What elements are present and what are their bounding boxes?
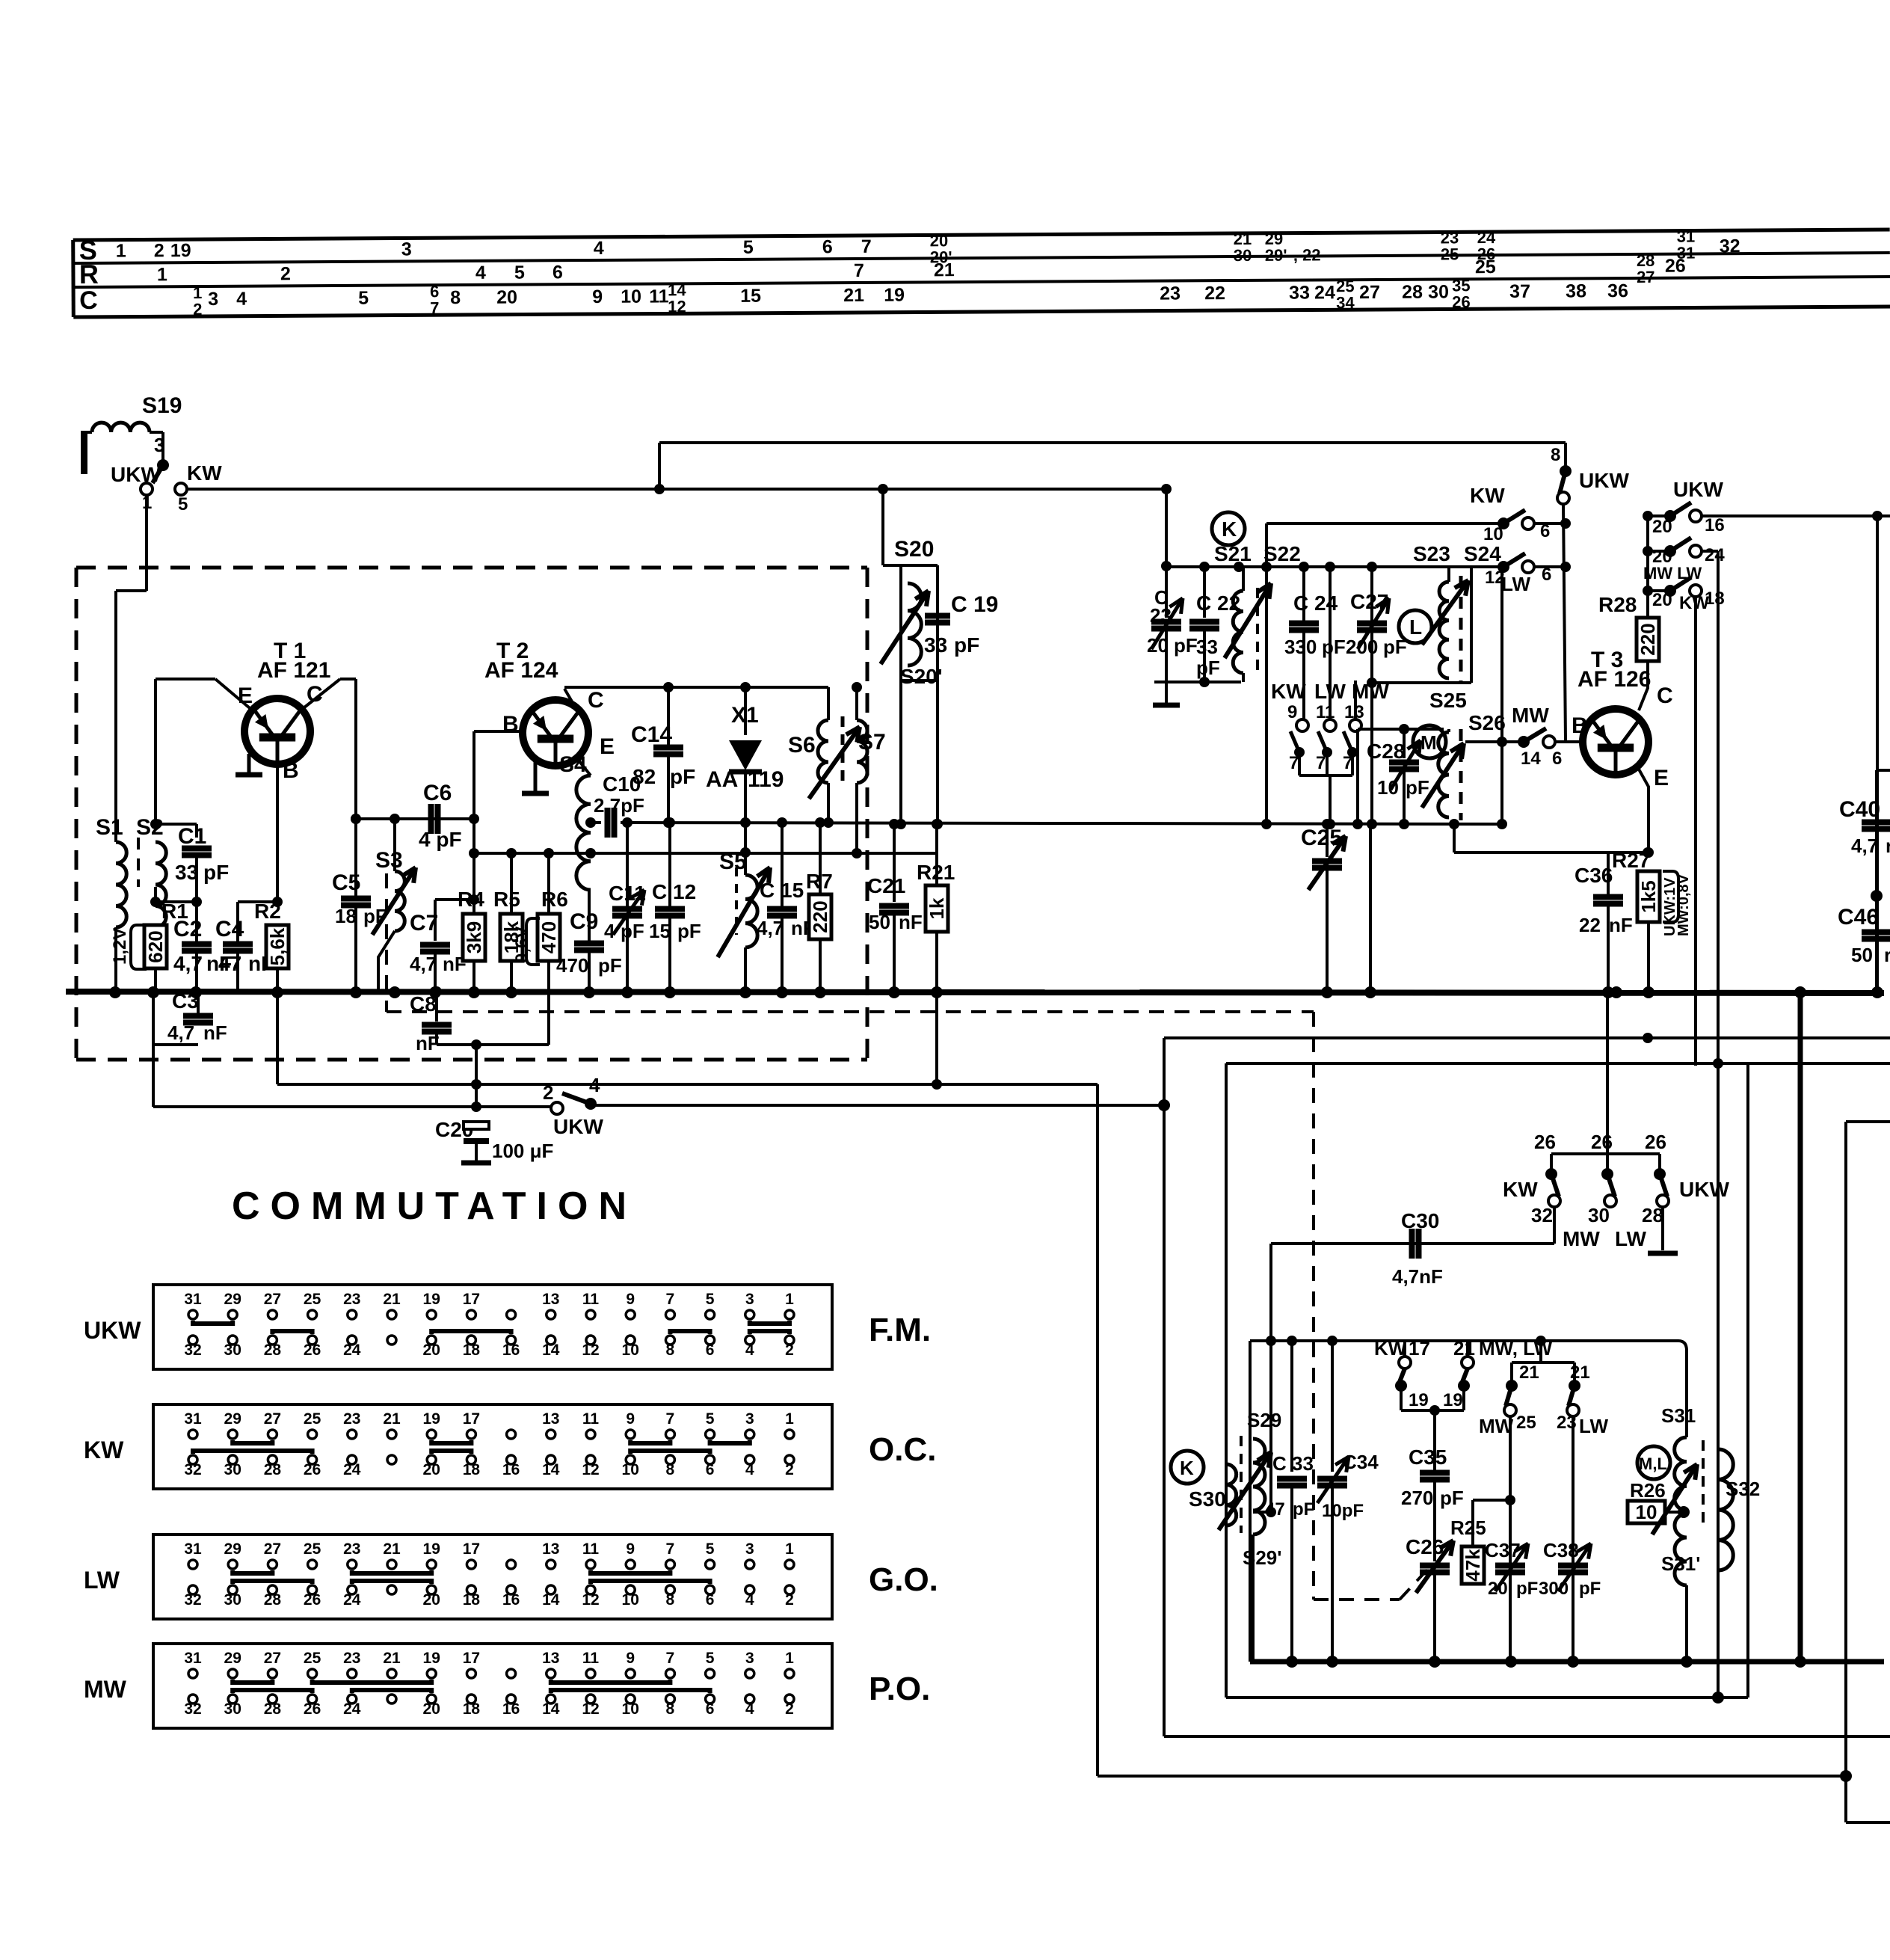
svg-text:270: 270 [1401, 1487, 1433, 1509]
svg-text:B: B [1572, 713, 1588, 738]
svg-text:S30: S30 [1189, 1487, 1226, 1511]
svg-text:23: 23 [343, 1410, 360, 1428]
svg-text:23: 23 [1160, 283, 1181, 304]
svg-text:11: 11 [582, 1540, 600, 1558]
svg-text:5: 5 [706, 1540, 715, 1558]
svg-text:19: 19 [170, 240, 191, 261]
svg-text:2: 2 [543, 1081, 553, 1104]
svg-text:21: 21 [383, 1650, 401, 1667]
svg-text:10: 10 [621, 286, 641, 307]
svg-text:3: 3 [401, 239, 412, 259]
svg-text:28: 28 [264, 1342, 282, 1359]
svg-text:19: 19 [423, 1540, 440, 1558]
svg-text:16: 16 [502, 1701, 520, 1718]
svg-text:C 12: C 12 [652, 880, 696, 903]
svg-text:3: 3 [745, 1650, 754, 1667]
svg-text:C35: C35 [1409, 1446, 1447, 1469]
svg-text:R26: R26 [1630, 1479, 1666, 1502]
svg-text:C46: C46 [1838, 905, 1879, 930]
svg-text:32: 32 [184, 1342, 201, 1359]
svg-text:B: B [283, 758, 299, 783]
svg-text:7: 7 [666, 1410, 675, 1428]
svg-text:33: 33 [1196, 636, 1218, 658]
svg-text:22: 22 [1579, 914, 1601, 936]
svg-text:18: 18 [335, 905, 357, 927]
svg-text:12: 12 [668, 297, 686, 316]
svg-text:C: C [1657, 683, 1673, 708]
svg-text:1: 1 [785, 1540, 794, 1558]
svg-text:S23: S23 [1413, 542, 1450, 565]
svg-text:33: 33 [1289, 282, 1310, 303]
svg-text:26: 26 [1534, 1131, 1556, 1153]
svg-text:4: 4 [475, 262, 486, 283]
svg-text:17: 17 [1409, 1337, 1430, 1360]
svg-text:1: 1 [785, 1291, 794, 1308]
svg-text:MW: MW [1512, 704, 1549, 727]
svg-text:28: 28 [1402, 282, 1423, 303]
svg-text:2: 2 [280, 263, 291, 284]
svg-text:KW: KW [84, 1437, 124, 1463]
svg-text:S29: S29 [1247, 1409, 1281, 1431]
svg-text:28: 28 [264, 1461, 282, 1478]
svg-text:C26: C26 [1406, 1535, 1444, 1558]
svg-text:pF: pF [621, 920, 644, 942]
svg-text:19: 19 [1409, 1390, 1429, 1410]
svg-text:21: 21 [383, 1410, 401, 1428]
svg-text:36: 36 [1607, 280, 1628, 301]
svg-text:2: 2 [193, 300, 202, 319]
svg-text:16: 16 [502, 1342, 520, 1359]
svg-text:C14: C14 [631, 722, 672, 747]
svg-text:11: 11 [649, 286, 669, 307]
svg-text:nF: nF [416, 1032, 440, 1054]
svg-text:47k: 47k [1462, 1549, 1484, 1582]
svg-text:14: 14 [542, 1461, 560, 1478]
svg-text:AF 126: AF 126 [1577, 667, 1651, 692]
svg-text:C9: C9 [570, 909, 598, 934]
svg-text:10: 10 [622, 1591, 639, 1609]
svg-text:11: 11 [582, 1410, 600, 1428]
svg-text:6: 6 [706, 1342, 715, 1359]
svg-text:6: 6 [706, 1591, 715, 1609]
svg-text:13: 13 [542, 1291, 559, 1308]
svg-text:r: r [1886, 835, 1890, 857]
svg-text:R28: R28 [1598, 593, 1637, 616]
svg-text:L: L [1409, 615, 1422, 639]
svg-text:6: 6 [822, 236, 833, 257]
svg-text:26: 26 [304, 1342, 321, 1359]
svg-text:2: 2 [785, 1701, 794, 1718]
svg-text:50: 50 [869, 911, 890, 933]
svg-text:4: 4 [745, 1342, 754, 1359]
svg-text:24: 24 [343, 1461, 361, 1478]
svg-text:34: 34 [1336, 293, 1355, 312]
svg-text:S31: S31 [1661, 1404, 1696, 1427]
svg-text:31: 31 [184, 1540, 202, 1558]
svg-text:nF: nF [899, 911, 923, 933]
svg-text:19: 19 [423, 1650, 440, 1667]
svg-text:17: 17 [463, 1650, 480, 1667]
svg-text:23: 23 [343, 1650, 360, 1667]
svg-text:24: 24 [1314, 282, 1335, 303]
svg-text:S25: S25 [1429, 689, 1467, 712]
svg-text:200: 200 [1346, 636, 1378, 658]
svg-text:3: 3 [208, 289, 218, 310]
svg-text:P.O.: P.O. [869, 1671, 930, 1707]
svg-text:32: 32 [1531, 1204, 1553, 1226]
svg-text:28: 28 [1642, 1204, 1663, 1226]
svg-text:7: 7 [1316, 753, 1326, 773]
svg-text:19: 19 [423, 1291, 440, 1308]
svg-text:9: 9 [626, 1540, 635, 1558]
svg-text:R25: R25 [1450, 1517, 1486, 1539]
svg-text:4,7: 4,7 [757, 917, 784, 939]
svg-text:15: 15 [740, 286, 761, 307]
svg-text:28: 28 [264, 1701, 282, 1718]
svg-text:COMMUTATION: COMMUTATION [232, 1185, 637, 1228]
svg-text:18: 18 [463, 1701, 481, 1718]
svg-text:26: 26 [1645, 1131, 1666, 1153]
svg-text:19: 19 [423, 1410, 440, 1428]
svg-text:4: 4 [745, 1591, 754, 1609]
svg-text:UKW: UKW [1673, 478, 1723, 501]
svg-text:AA: AA [706, 767, 738, 792]
svg-text:30: 30 [224, 1591, 241, 1609]
svg-text:47: 47 [1265, 1499, 1285, 1520]
svg-text:1: 1 [785, 1410, 794, 1428]
svg-text:24: 24 [343, 1591, 361, 1609]
svg-text:21: 21 [934, 259, 955, 280]
svg-text:6: 6 [552, 262, 563, 283]
svg-text:8: 8 [666, 1701, 675, 1718]
svg-text:pF: pF [1406, 776, 1429, 799]
svg-text:pF: pF [1579, 1579, 1601, 1599]
svg-text:8: 8 [666, 1461, 675, 1478]
svg-text:, 22: , 22 [1293, 245, 1321, 264]
svg-text:50: 50 [1851, 944, 1873, 966]
svg-text:13: 13 [542, 1650, 559, 1667]
svg-text:25: 25 [304, 1650, 321, 1667]
svg-text:KW: KW [1271, 680, 1306, 703]
svg-text:19: 19 [1443, 1390, 1463, 1410]
svg-text:29: 29 [224, 1291, 241, 1308]
svg-text:S20: S20 [894, 537, 934, 562]
svg-text:32: 32 [184, 1591, 201, 1609]
svg-text:17: 17 [463, 1410, 480, 1428]
svg-text:6: 6 [706, 1701, 715, 1718]
svg-text:13: 13 [542, 1540, 559, 1558]
svg-text:9: 9 [626, 1291, 635, 1308]
svg-text:20: 20 [423, 1591, 440, 1609]
svg-text:24: 24 [343, 1701, 361, 1718]
svg-text:26: 26 [1665, 256, 1686, 277]
svg-text:1: 1 [157, 264, 167, 285]
svg-text:0,6V: 0,6V [512, 927, 532, 963]
svg-text:C4: C4 [215, 917, 244, 941]
svg-text:4: 4 [236, 289, 247, 310]
svg-text:15: 15 [649, 920, 671, 942]
svg-text:S26: S26 [1468, 711, 1506, 734]
svg-text:1k5: 1k5 [1637, 880, 1660, 912]
svg-text:12: 12 [582, 1461, 599, 1478]
svg-text:3: 3 [745, 1410, 754, 1428]
svg-text:S1: S1 [96, 815, 123, 840]
svg-text:MW:0,8V: MW:0,8V [1675, 873, 1692, 936]
svg-text:MW: MW [84, 1676, 127, 1703]
svg-text:29: 29 [224, 1540, 241, 1558]
svg-text:33: 33 [924, 633, 947, 657]
svg-text:10: 10 [1636, 1501, 1657, 1523]
svg-text:30: 30 [224, 1701, 241, 1718]
svg-text:28: 28 [264, 1591, 282, 1609]
svg-text:S19: S19 [142, 393, 182, 418]
svg-text:12: 12 [582, 1701, 599, 1718]
svg-text:R4: R4 [458, 888, 484, 911]
svg-text:KW: KW [1503, 1178, 1538, 1201]
svg-text:7: 7 [666, 1540, 675, 1558]
svg-text:S4: S4 [559, 752, 587, 777]
svg-text:LW: LW [1579, 1415, 1608, 1437]
svg-text:3: 3 [745, 1291, 754, 1308]
svg-text:25: 25 [1441, 245, 1459, 263]
svg-text:32: 32 [184, 1701, 201, 1718]
svg-text:10: 10 [622, 1342, 639, 1359]
svg-text:UKW: UKW [1579, 469, 1629, 492]
svg-text:18: 18 [463, 1461, 481, 1478]
svg-text:pF: pF [954, 633, 979, 657]
svg-text:S31': S31' [1661, 1552, 1700, 1575]
svg-text:r: r [1884, 944, 1890, 966]
svg-text:25: 25 [1516, 1413, 1536, 1433]
svg-text:13: 13 [542, 1410, 559, 1428]
svg-text:14: 14 [542, 1591, 560, 1609]
svg-text:9: 9 [626, 1650, 635, 1667]
svg-text:30: 30 [1428, 281, 1449, 302]
svg-text:nF: nF [203, 1022, 227, 1044]
svg-text:LW: LW [1615, 1227, 1647, 1250]
svg-text:16: 16 [1705, 515, 1725, 535]
svg-text:pF: pF [1516, 1579, 1538, 1599]
svg-text:20: 20 [496, 287, 517, 308]
svg-text:7: 7 [666, 1650, 675, 1667]
svg-text:UKW: UKW [84, 1317, 141, 1344]
svg-text:10: 10 [1377, 776, 1399, 799]
svg-text:20: 20 [423, 1342, 440, 1359]
svg-text:8: 8 [450, 287, 461, 308]
svg-text:C1: C1 [178, 824, 206, 849]
svg-text:AF 124: AF 124 [484, 658, 558, 683]
svg-text:pF: pF [598, 954, 622, 977]
svg-text:24: 24 [343, 1342, 361, 1359]
svg-text:20: 20 [1488, 1579, 1508, 1599]
svg-text:UKW: UKW [1679, 1178, 1729, 1201]
svg-text:C: C [588, 688, 604, 713]
svg-text:C40: C40 [1839, 797, 1880, 822]
svg-text:S24: S24 [1464, 542, 1501, 565]
svg-text:119: 119 [748, 767, 784, 792]
svg-text:19: 19 [884, 285, 905, 306]
svg-text:G.O.: G.O. [869, 1561, 938, 1598]
svg-text:8: 8 [1551, 445, 1560, 465]
svg-text:17: 17 [463, 1540, 480, 1558]
svg-text:27: 27 [1637, 268, 1655, 286]
svg-text:23: 23 [343, 1540, 360, 1558]
svg-text:23: 23 [343, 1291, 360, 1308]
svg-text:UKW: UKW [553, 1115, 603, 1138]
svg-text:B: B [502, 712, 519, 737]
svg-text:10: 10 [622, 1701, 639, 1718]
svg-text:30: 30 [1588, 1204, 1610, 1226]
svg-text:7: 7 [854, 260, 864, 281]
svg-text:27: 27 [264, 1540, 281, 1558]
svg-text:R2: R2 [254, 900, 281, 923]
svg-text:32: 32 [184, 1461, 201, 1478]
svg-text:M,L: M,L [1639, 1454, 1667, 1473]
svg-text:pF: pF [1440, 1487, 1464, 1509]
svg-text:47: 47 [218, 952, 241, 975]
svg-text:27: 27 [1359, 282, 1380, 303]
svg-text:4,7: 4,7 [173, 952, 203, 975]
svg-text:620: 620 [144, 930, 167, 962]
svg-text:2: 2 [785, 1591, 794, 1609]
svg-text:UKW: UKW [111, 463, 161, 486]
svg-text:12: 12 [582, 1342, 599, 1359]
svg-text:4: 4 [604, 920, 615, 942]
svg-text:KW: KW [187, 461, 222, 485]
svg-text:3: 3 [154, 434, 164, 456]
svg-text:4: 4 [589, 1074, 600, 1096]
svg-text:9: 9 [1287, 702, 1297, 722]
svg-text:2: 2 [785, 1342, 794, 1359]
svg-text:4: 4 [745, 1461, 754, 1478]
svg-text:LW: LW [1501, 573, 1530, 595]
svg-text:C6: C6 [423, 781, 452, 805]
svg-text:3: 3 [745, 1540, 754, 1558]
svg-text:4 pF: 4 pF [419, 828, 462, 851]
svg-text:F.M.: F.M. [869, 1312, 931, 1348]
svg-text:1k: 1k [926, 897, 948, 919]
svg-text:MW: MW [1479, 1415, 1514, 1437]
svg-text:26: 26 [304, 1461, 321, 1478]
svg-text:S21: S21 [1214, 542, 1252, 565]
svg-text:C21: C21 [867, 874, 905, 897]
svg-text:24: 24 [1705, 545, 1725, 565]
svg-text:25: 25 [1475, 256, 1496, 277]
svg-text:MW: MW [1563, 1227, 1600, 1250]
svg-text:33: 33 [175, 861, 198, 884]
svg-text:1: 1 [116, 241, 126, 262]
svg-text:14: 14 [542, 1701, 560, 1718]
svg-text:9: 9 [592, 286, 603, 307]
svg-text:20: 20 [423, 1461, 440, 1478]
svg-text:30: 30 [224, 1461, 241, 1478]
svg-text:7: 7 [1343, 753, 1352, 773]
svg-text:470: 470 [556, 954, 588, 977]
svg-text:AF 121: AF 121 [257, 658, 330, 683]
svg-text:1,2V: 1,2V [110, 928, 130, 965]
svg-text:pF: pF [1293, 1499, 1314, 1520]
svg-text:20: 20 [1652, 517, 1672, 537]
svg-text:O.C.: O.C. [869, 1431, 936, 1468]
svg-text:37: 37 [1509, 281, 1530, 302]
svg-text:pF: pF [203, 861, 229, 884]
svg-text:K: K [1222, 517, 1237, 541]
svg-text:27: 27 [264, 1291, 281, 1308]
svg-text:25: 25 [304, 1540, 321, 1558]
svg-text:14: 14 [542, 1342, 560, 1359]
svg-text:29: 29 [224, 1650, 241, 1667]
svg-text:pF: pF [1174, 634, 1198, 657]
svg-text:4: 4 [745, 1701, 754, 1718]
svg-text:17: 17 [463, 1291, 480, 1308]
svg-text:5: 5 [743, 237, 754, 258]
svg-text:29: 29 [224, 1410, 241, 1428]
svg-text:R: R [79, 259, 99, 289]
svg-text:8: 8 [666, 1342, 675, 1359]
svg-text:14: 14 [1521, 749, 1541, 769]
svg-text:nF: nF [1609, 914, 1633, 936]
svg-text:4: 4 [594, 238, 604, 259]
svg-text:5: 5 [358, 288, 369, 309]
svg-text:pF: pF [1196, 657, 1220, 679]
svg-text:25: 25 [304, 1291, 321, 1308]
svg-text:5: 5 [706, 1291, 715, 1308]
svg-text:38: 38 [1566, 280, 1586, 301]
svg-text:MW LW: MW LW [1643, 564, 1702, 583]
svg-text:KW: KW [1470, 484, 1505, 507]
svg-text:LW: LW [84, 1567, 120, 1594]
svg-text:6: 6 [1552, 749, 1562, 769]
svg-text:29': 29' [1265, 246, 1287, 265]
svg-text:S6: S6 [788, 733, 816, 758]
svg-text:21: 21 [383, 1291, 401, 1308]
svg-text:7: 7 [1289, 753, 1299, 773]
svg-text:16: 16 [502, 1461, 520, 1478]
svg-text:C28: C28 [1367, 740, 1405, 763]
svg-text:5,6k: 5,6k [266, 927, 289, 965]
svg-text:25: 25 [304, 1410, 321, 1428]
svg-text:5: 5 [178, 494, 188, 514]
svg-text:E: E [600, 734, 615, 759]
svg-text:11: 11 [1316, 702, 1335, 722]
svg-text:pF: pF [670, 765, 695, 788]
svg-text:26: 26 [1591, 1131, 1613, 1153]
svg-text:30: 30 [224, 1342, 241, 1359]
svg-text:31: 31 [184, 1410, 202, 1428]
svg-text:4,7: 4,7 [410, 953, 437, 975]
svg-text:21: 21 [1519, 1363, 1539, 1383]
svg-text:2,7pF: 2,7pF [594, 794, 644, 817]
svg-text:10pF: 10pF [1322, 1501, 1364, 1521]
svg-text:7: 7 [861, 236, 872, 257]
svg-text:S29': S29' [1243, 1546, 1281, 1569]
svg-text:1: 1 [785, 1650, 794, 1667]
svg-text:31: 31 [184, 1291, 202, 1308]
svg-text:4,7: 4,7 [167, 1022, 194, 1044]
svg-text:pF: pF [1322, 636, 1346, 658]
svg-text:C 19: C 19 [951, 592, 998, 617]
svg-text:20: 20 [1147, 634, 1169, 657]
svg-text:4,7nF: 4,7nF [1392, 1265, 1443, 1288]
svg-text:470: 470 [538, 921, 560, 953]
svg-text:5: 5 [706, 1410, 715, 1428]
svg-text:30: 30 [1234, 246, 1252, 265]
svg-text:C38: C38 [1543, 1539, 1579, 1561]
svg-text:R5: R5 [493, 888, 520, 911]
svg-text:20: 20 [1652, 590, 1672, 610]
svg-text:K: K [1180, 1457, 1194, 1479]
svg-text:22: 22 [1204, 283, 1225, 304]
